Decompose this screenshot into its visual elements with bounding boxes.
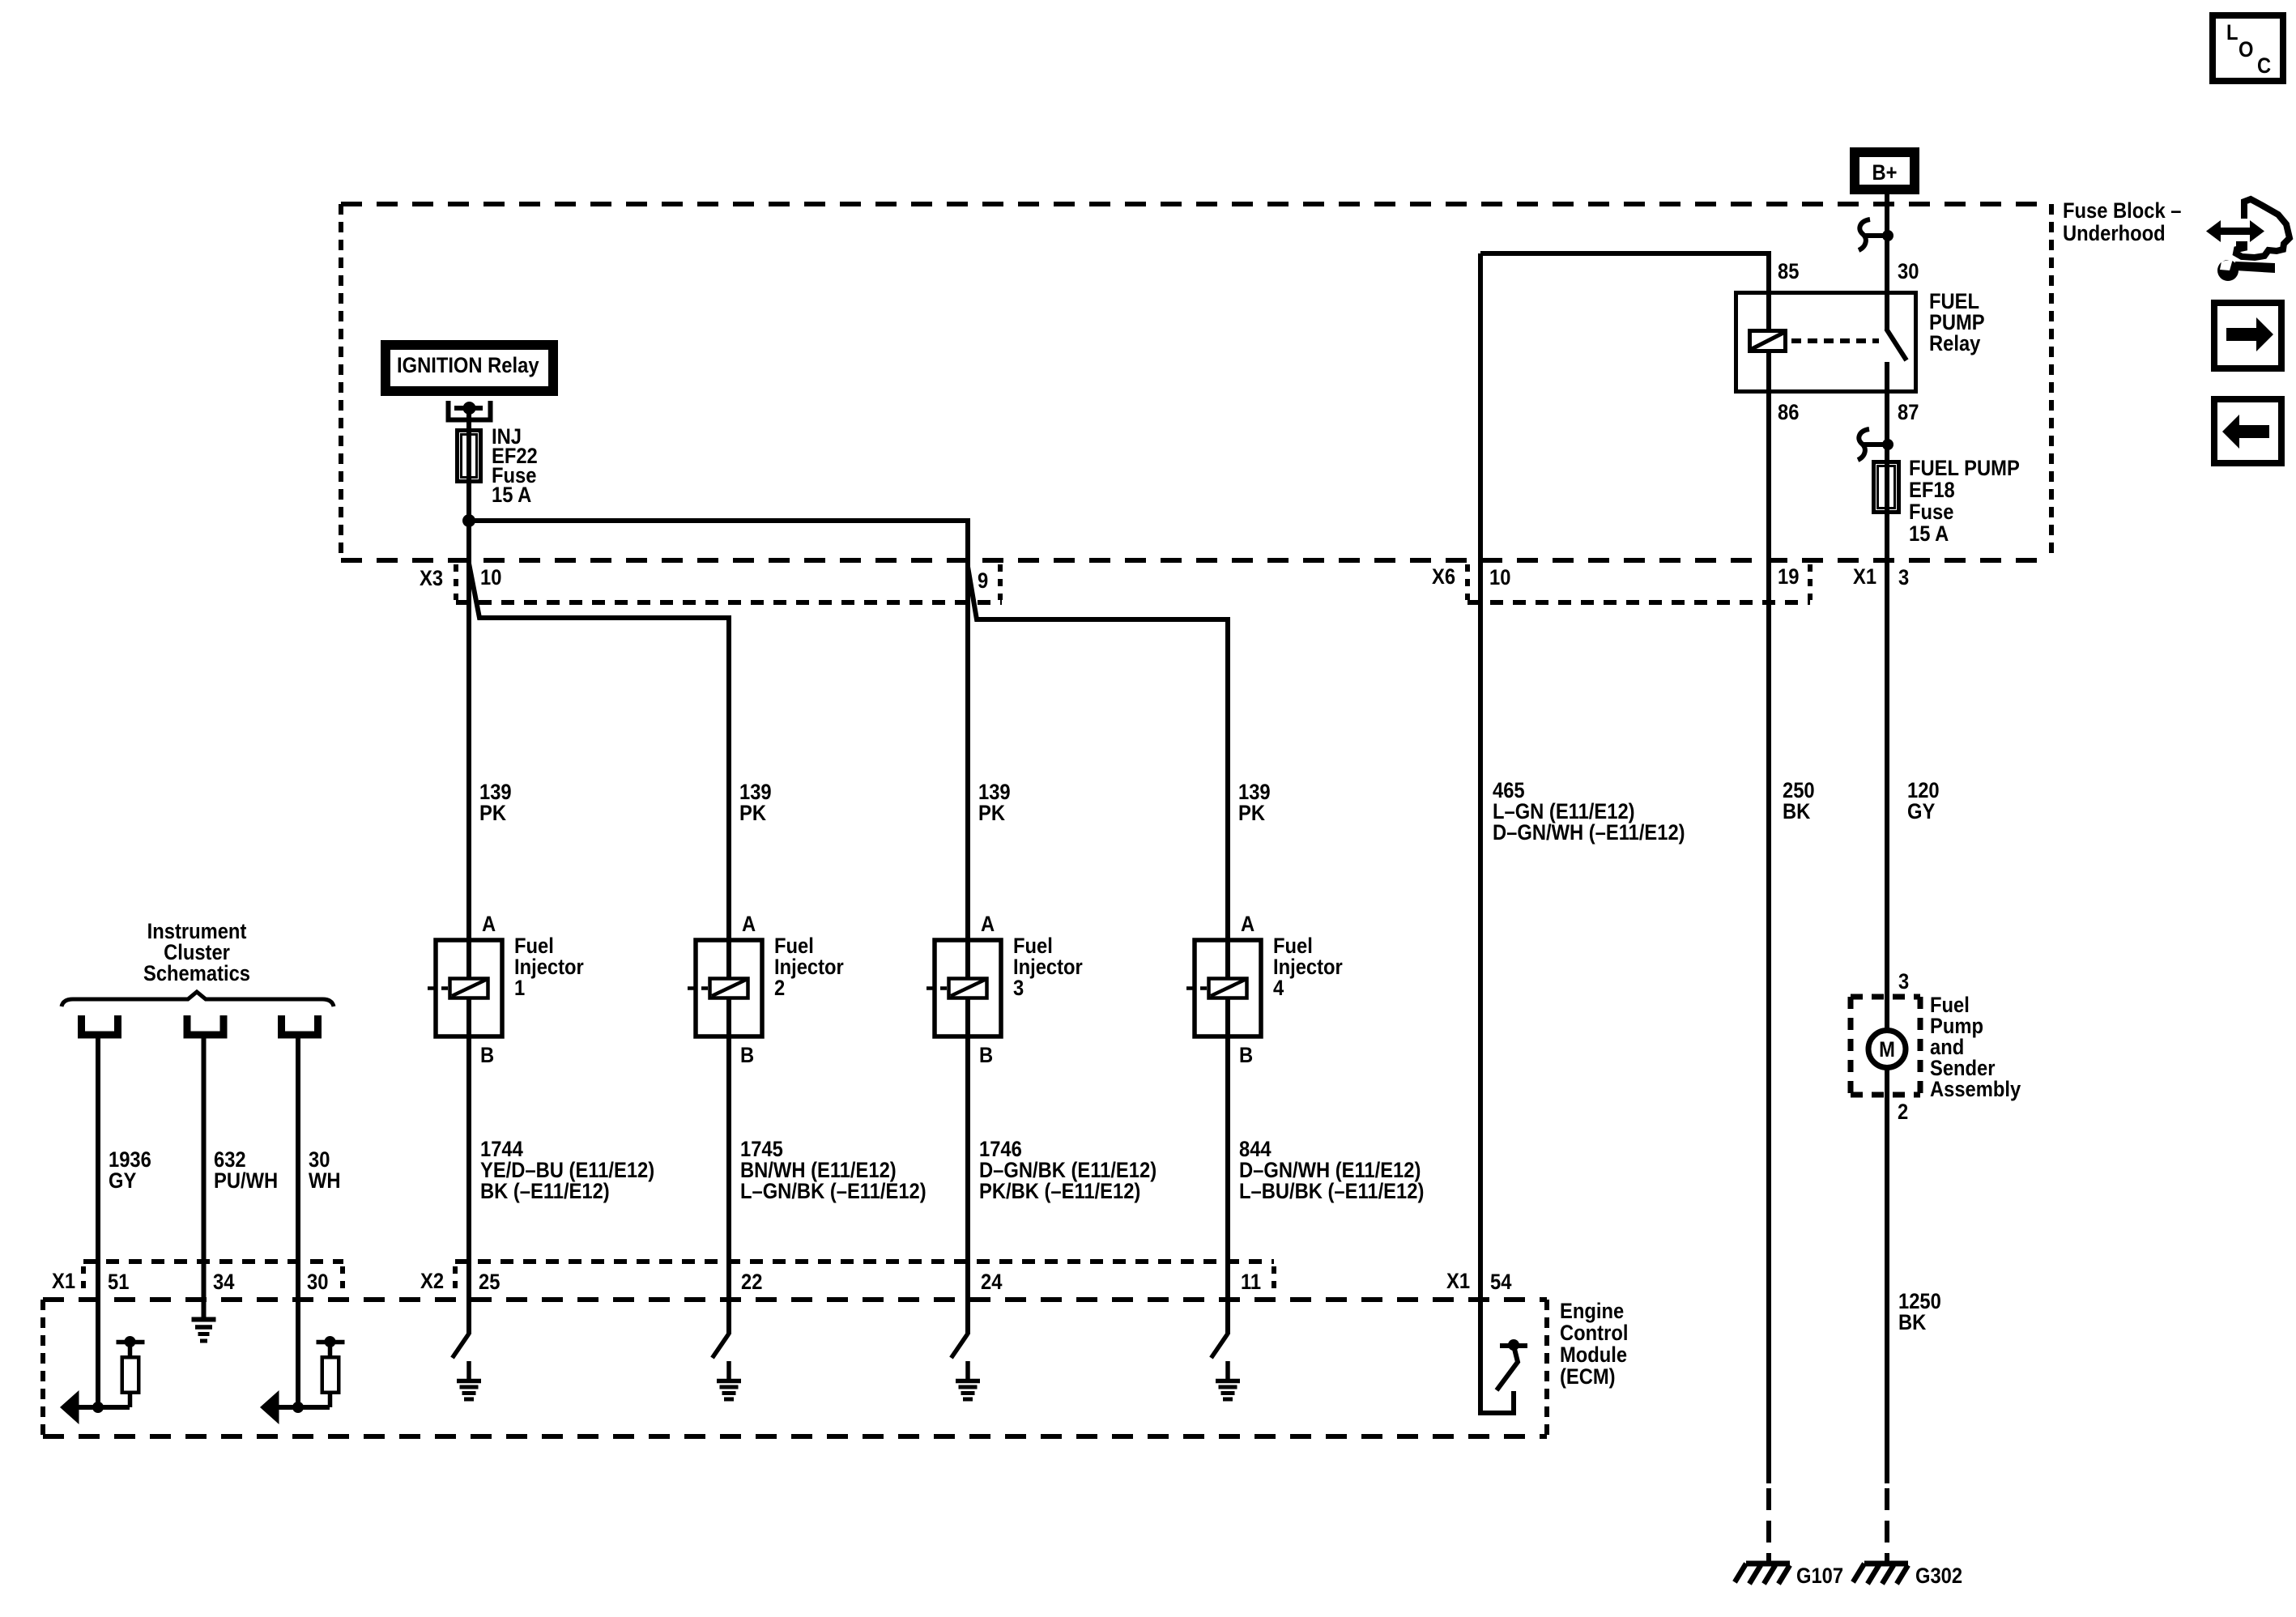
ground (injector 2 driver) — [717, 1361, 741, 1399]
fuel injector 1 body — [436, 940, 502, 1036]
X6 connector dotted box — [1467, 564, 1810, 602]
svg-text:11: 11 — [1241, 1270, 1261, 1295]
svg-text:(ECM): (ECM) — [1560, 1365, 1616, 1389]
X3 connector dotted box — [456, 564, 1002, 602]
svg-text:PK: PK — [978, 802, 1006, 826]
Fuel Injector 2 label — [774, 934, 844, 1001]
svg-text:3: 3 — [1898, 566, 1909, 590]
svg-text:X2: X2 — [420, 1270, 444, 1294]
fuse block underhood dashed box — [341, 204, 2051, 560]
wire relay pin 85 feed (to ECM 465 circuit) — [1480, 253, 1769, 394]
IGNITION Relay label box — [386, 345, 553, 391]
svg-text:IGNITION Relay: IGNITION Relay — [397, 354, 539, 378]
svg-text:L: L — [2226, 21, 2238, 45]
svg-text:2: 2 — [774, 977, 785, 1001]
circuit label 1745 (injector 2 control) — [740, 1138, 926, 1204]
svg-text:B: B — [979, 1044, 993, 1068]
Fuel Injector 1 label — [514, 934, 584, 1001]
wire X3 pin 9 to fuel injector 3 — [965, 521, 970, 1334]
svg-text:54: 54 — [1490, 1270, 1511, 1295]
svg-text:M: M — [1879, 1038, 1895, 1062]
ground (injector 4 driver) — [1216, 1361, 1240, 1399]
circuit label 139 PK (injector 4 feed) — [1238, 781, 1271, 826]
svg-text:D–GN/WH (–E11/E12): D–GN/WH (–E11/E12) — [1493, 821, 1685, 845]
svg-text:15 A: 15 A — [1909, 522, 1949, 547]
svg-text:30: 30 — [1898, 260, 1919, 284]
fuel injector 4 coil — [1186, 979, 1247, 998]
svg-text:Fuse: Fuse — [1909, 500, 1953, 525]
svg-text:BK (–E11/E12): BK (–E11/E12) — [480, 1180, 610, 1204]
fuel injector 2 body — [696, 940, 762, 1036]
backward reference arrow box — [2214, 399, 2281, 463]
brace over cluster wires — [62, 992, 334, 1006]
LOC reference box — [2213, 15, 2283, 81]
svg-text:15 A: 15 A — [492, 483, 531, 508]
svg-text:X6: X6 — [1432, 565, 1455, 589]
svg-text:9: 9 — [978, 569, 988, 594]
svg-text:X1: X1 — [1446, 1270, 1470, 1294]
svg-text:X1: X1 — [52, 1270, 75, 1294]
svg-text:A: A — [981, 913, 995, 937]
ground (injector 1 driver) — [457, 1361, 481, 1399]
svg-text:87: 87 — [1898, 401, 1919, 425]
svg-text:B+: B+ — [1872, 161, 1897, 185]
fuel pump motor M — [1868, 1031, 1906, 1068]
relay internal dashed link — [1791, 338, 1879, 343]
wire branch X3 pin 9 to fuel injector 4 — [968, 567, 1228, 1334]
junction node below fuse EF22 — [462, 514, 475, 527]
svg-text:30: 30 — [307, 1270, 328, 1295]
svg-text:B: B — [740, 1044, 754, 1068]
ignition relay terminal bracket — [449, 401, 491, 420]
wire 1250 BK dashed segment — [1885, 1488, 1889, 1564]
svg-text:A: A — [742, 913, 756, 937]
ECM output node pin 30 (arrow and resistor) — [260, 1336, 345, 1424]
Fuel Injector 4 label — [1273, 934, 1343, 1001]
ECM driver switch injector 1 — [453, 1334, 470, 1358]
fuel injector 4 body — [1195, 940, 1261, 1036]
Fuel Injector 3 label — [1013, 934, 1083, 1001]
circuit label 844 (injector 4 control) — [1239, 1138, 1424, 1204]
svg-text:Schematics: Schematics — [143, 962, 250, 986]
fuel injector 3 body — [935, 940, 1001, 1036]
fuel injector 2 coil — [688, 979, 748, 998]
FUEL PUMP EF18 Fuse 15 A label — [1909, 457, 2020, 547]
ECM X2 connector dotted line — [455, 1262, 1274, 1296]
wire X3 pin 10 to fuel injector 1 — [466, 521, 471, 1334]
fuel pump relay U1 box — [1736, 293, 1916, 392]
relay coil — [1750, 331, 1786, 351]
circuit label 1250 BK — [1898, 1290, 1941, 1335]
svg-text:A: A — [482, 913, 496, 937]
relay pin 87 stub — [1885, 362, 1889, 394]
svg-text:C: C — [2257, 54, 2271, 79]
wire 465 relay 85 to ECM pin 54 — [1480, 253, 1514, 1413]
ECM fuel pump relay driver switch — [1497, 1339, 1527, 1390]
ground G302 — [1853, 1564, 1908, 1584]
wire cluster 1936 GY to ECM X1 51 — [96, 1038, 100, 1407]
svg-text:G302: G302 — [1915, 1564, 1962, 1589]
wire ignition relay to junction — [466, 408, 471, 521]
svg-text:X1: X1 — [1853, 565, 1876, 589]
svg-text:24: 24 — [981, 1270, 1002, 1295]
svg-text:EF18: EF18 — [1909, 479, 1955, 503]
wire relay 87 through fuse EF18 and X1 pin 3 to fuel pump — [1885, 394, 1889, 1483]
svg-text:Relay: Relay — [1929, 332, 1980, 356]
relay switch blade — [1886, 329, 1906, 360]
svg-text:Fuse Block –: Fuse Block – — [2063, 199, 2182, 223]
svg-text:Engine: Engine — [1560, 1300, 1624, 1324]
svg-text:GY: GY — [1907, 800, 1935, 824]
svg-text:1: 1 — [514, 977, 525, 1001]
wire 250 BK relay 86 to ground — [1766, 394, 1771, 1483]
svg-text:86: 86 — [1778, 401, 1799, 425]
circuit label 120 GY — [1907, 779, 1940, 824]
Fuse Block - Underhood label — [2063, 199, 2182, 246]
svg-text:10: 10 — [480, 566, 501, 590]
svg-text:34: 34 — [213, 1270, 234, 1295]
Instrument Cluster Schematics label — [143, 920, 250, 986]
svg-text:22: 22 — [741, 1270, 762, 1295]
svg-text:10: 10 — [1489, 566, 1510, 590]
wire cluster 632 PU/WH to ECM X1 34 — [202, 1038, 207, 1319]
engine control module dashed box — [43, 1300, 1547, 1436]
circuit label 632 PU/WH — [214, 1148, 278, 1194]
ground (injector 3 driver) — [956, 1361, 980, 1399]
circuit label 1744 (injector 1 control) — [480, 1138, 654, 1204]
svg-text:BK: BK — [1898, 1311, 1927, 1335]
fuse FUEL PUMP EF18 — [1874, 462, 1899, 513]
svg-text:Assembly: Assembly — [1930, 1078, 2021, 1102]
svg-text:Underhood: Underhood — [2063, 222, 2166, 246]
Fuel Pump and Sender Assembly label — [1930, 994, 2021, 1102]
service info icon (mitt with double arrow and wrench) — [2206, 199, 2290, 281]
cluster connector terminal 1 — [78, 1015, 121, 1035]
fuel injector 1 coil — [428, 979, 488, 998]
svg-text:PU/WH: PU/WH — [214, 1169, 278, 1194]
svg-text:G107: G107 — [1796, 1564, 1843, 1589]
svg-text:PK: PK — [739, 802, 767, 826]
circuit label 465 L-GN — [1493, 779, 1685, 845]
svg-text:PK: PK — [1238, 802, 1266, 826]
Engine Control Module (ECM) label — [1560, 1300, 1628, 1389]
svg-text:PK: PK — [479, 802, 507, 826]
svg-text:FUEL PUMP: FUEL PUMP — [1909, 457, 2020, 481]
svg-text:85: 85 — [1778, 260, 1799, 284]
svg-text:4: 4 — [1273, 977, 1284, 1001]
ECM driver switch injector 2 — [713, 1334, 730, 1358]
svg-text:25: 25 — [479, 1270, 500, 1295]
svg-text:Control: Control — [1560, 1321, 1628, 1346]
bus wire junction to X3 pin 9 — [469, 521, 968, 564]
ECM X1 connector (cluster side) — [83, 1262, 343, 1296]
ECM driver switch injector 3 — [952, 1334, 969, 1358]
forward reference arrow box — [2214, 303, 2281, 368]
svg-text:B: B — [1239, 1044, 1253, 1068]
cluster connector terminal 3 — [278, 1015, 322, 1035]
circuit label 30 WH — [309, 1148, 341, 1194]
svg-text:O: O — [2238, 38, 2253, 62]
B+ power feed box — [1850, 147, 1919, 194]
svg-text:51: 51 — [108, 1270, 129, 1295]
INJ EF22 Fuse 15 A label — [492, 425, 538, 508]
ECM driver switch injector 4 — [1212, 1334, 1229, 1358]
wire branch X3 pin 10 to fuel injector 2 — [469, 564, 729, 1334]
svg-text:GY: GY — [109, 1169, 136, 1194]
wire cluster 30 WH to ECM X1 30 — [296, 1038, 300, 1407]
svg-text:X3: X3 — [420, 567, 443, 591]
circuit label 1746 (injector 3 control) — [979, 1138, 1157, 1204]
wire B+ to relay pin 30 — [1885, 194, 1889, 330]
cluster connector terminal 2 — [184, 1015, 228, 1035]
svg-text:2: 2 — [1898, 1100, 1908, 1125]
svg-text:B: B — [480, 1044, 494, 1068]
fuel pump and sender assembly dashed box — [1851, 997, 1920, 1095]
circuit label 1936 GY — [109, 1148, 151, 1194]
ground (ECM pin 34) — [192, 1320, 216, 1342]
ground G107 — [1735, 1564, 1790, 1584]
circuit label 139 PK (injector 1 feed) — [479, 781, 512, 826]
circuit label 139 PK (injector 3 feed) — [978, 781, 1011, 826]
svg-text:3: 3 — [1013, 977, 1024, 1001]
fuel injector 3 coil — [926, 979, 987, 998]
svg-text:WH: WH — [309, 1169, 341, 1194]
terminal clip at fuse EF18 — [1858, 429, 1893, 460]
svg-text:Module: Module — [1560, 1343, 1627, 1368]
svg-text:L–GN/BK (–E11/E12): L–GN/BK (–E11/E12) — [740, 1180, 926, 1204]
svg-text:19: 19 — [1778, 565, 1799, 589]
svg-text:L–BU/BK (–E11/E12): L–BU/BK (–E11/E12) — [1239, 1180, 1424, 1204]
fuse INJ EF22 — [458, 431, 481, 482]
circuit label 139 PK (injector 2 feed) — [739, 781, 772, 826]
svg-text:BK: BK — [1783, 800, 1811, 824]
circuit label 250 BK — [1783, 779, 1815, 824]
svg-text:PK/BK (–E11/E12): PK/BK (–E11/E12) — [979, 1180, 1140, 1204]
terminal clip at relay pin 30 — [1859, 219, 1893, 250]
svg-text:A: A — [1241, 913, 1254, 937]
svg-text:3: 3 — [1898, 970, 1909, 994]
wire 250 BK dashed segment — [1766, 1488, 1771, 1564]
ECM output node pin 51 (arrow and resistor) — [60, 1336, 145, 1424]
FUEL PUMP Relay label — [1929, 290, 1985, 356]
